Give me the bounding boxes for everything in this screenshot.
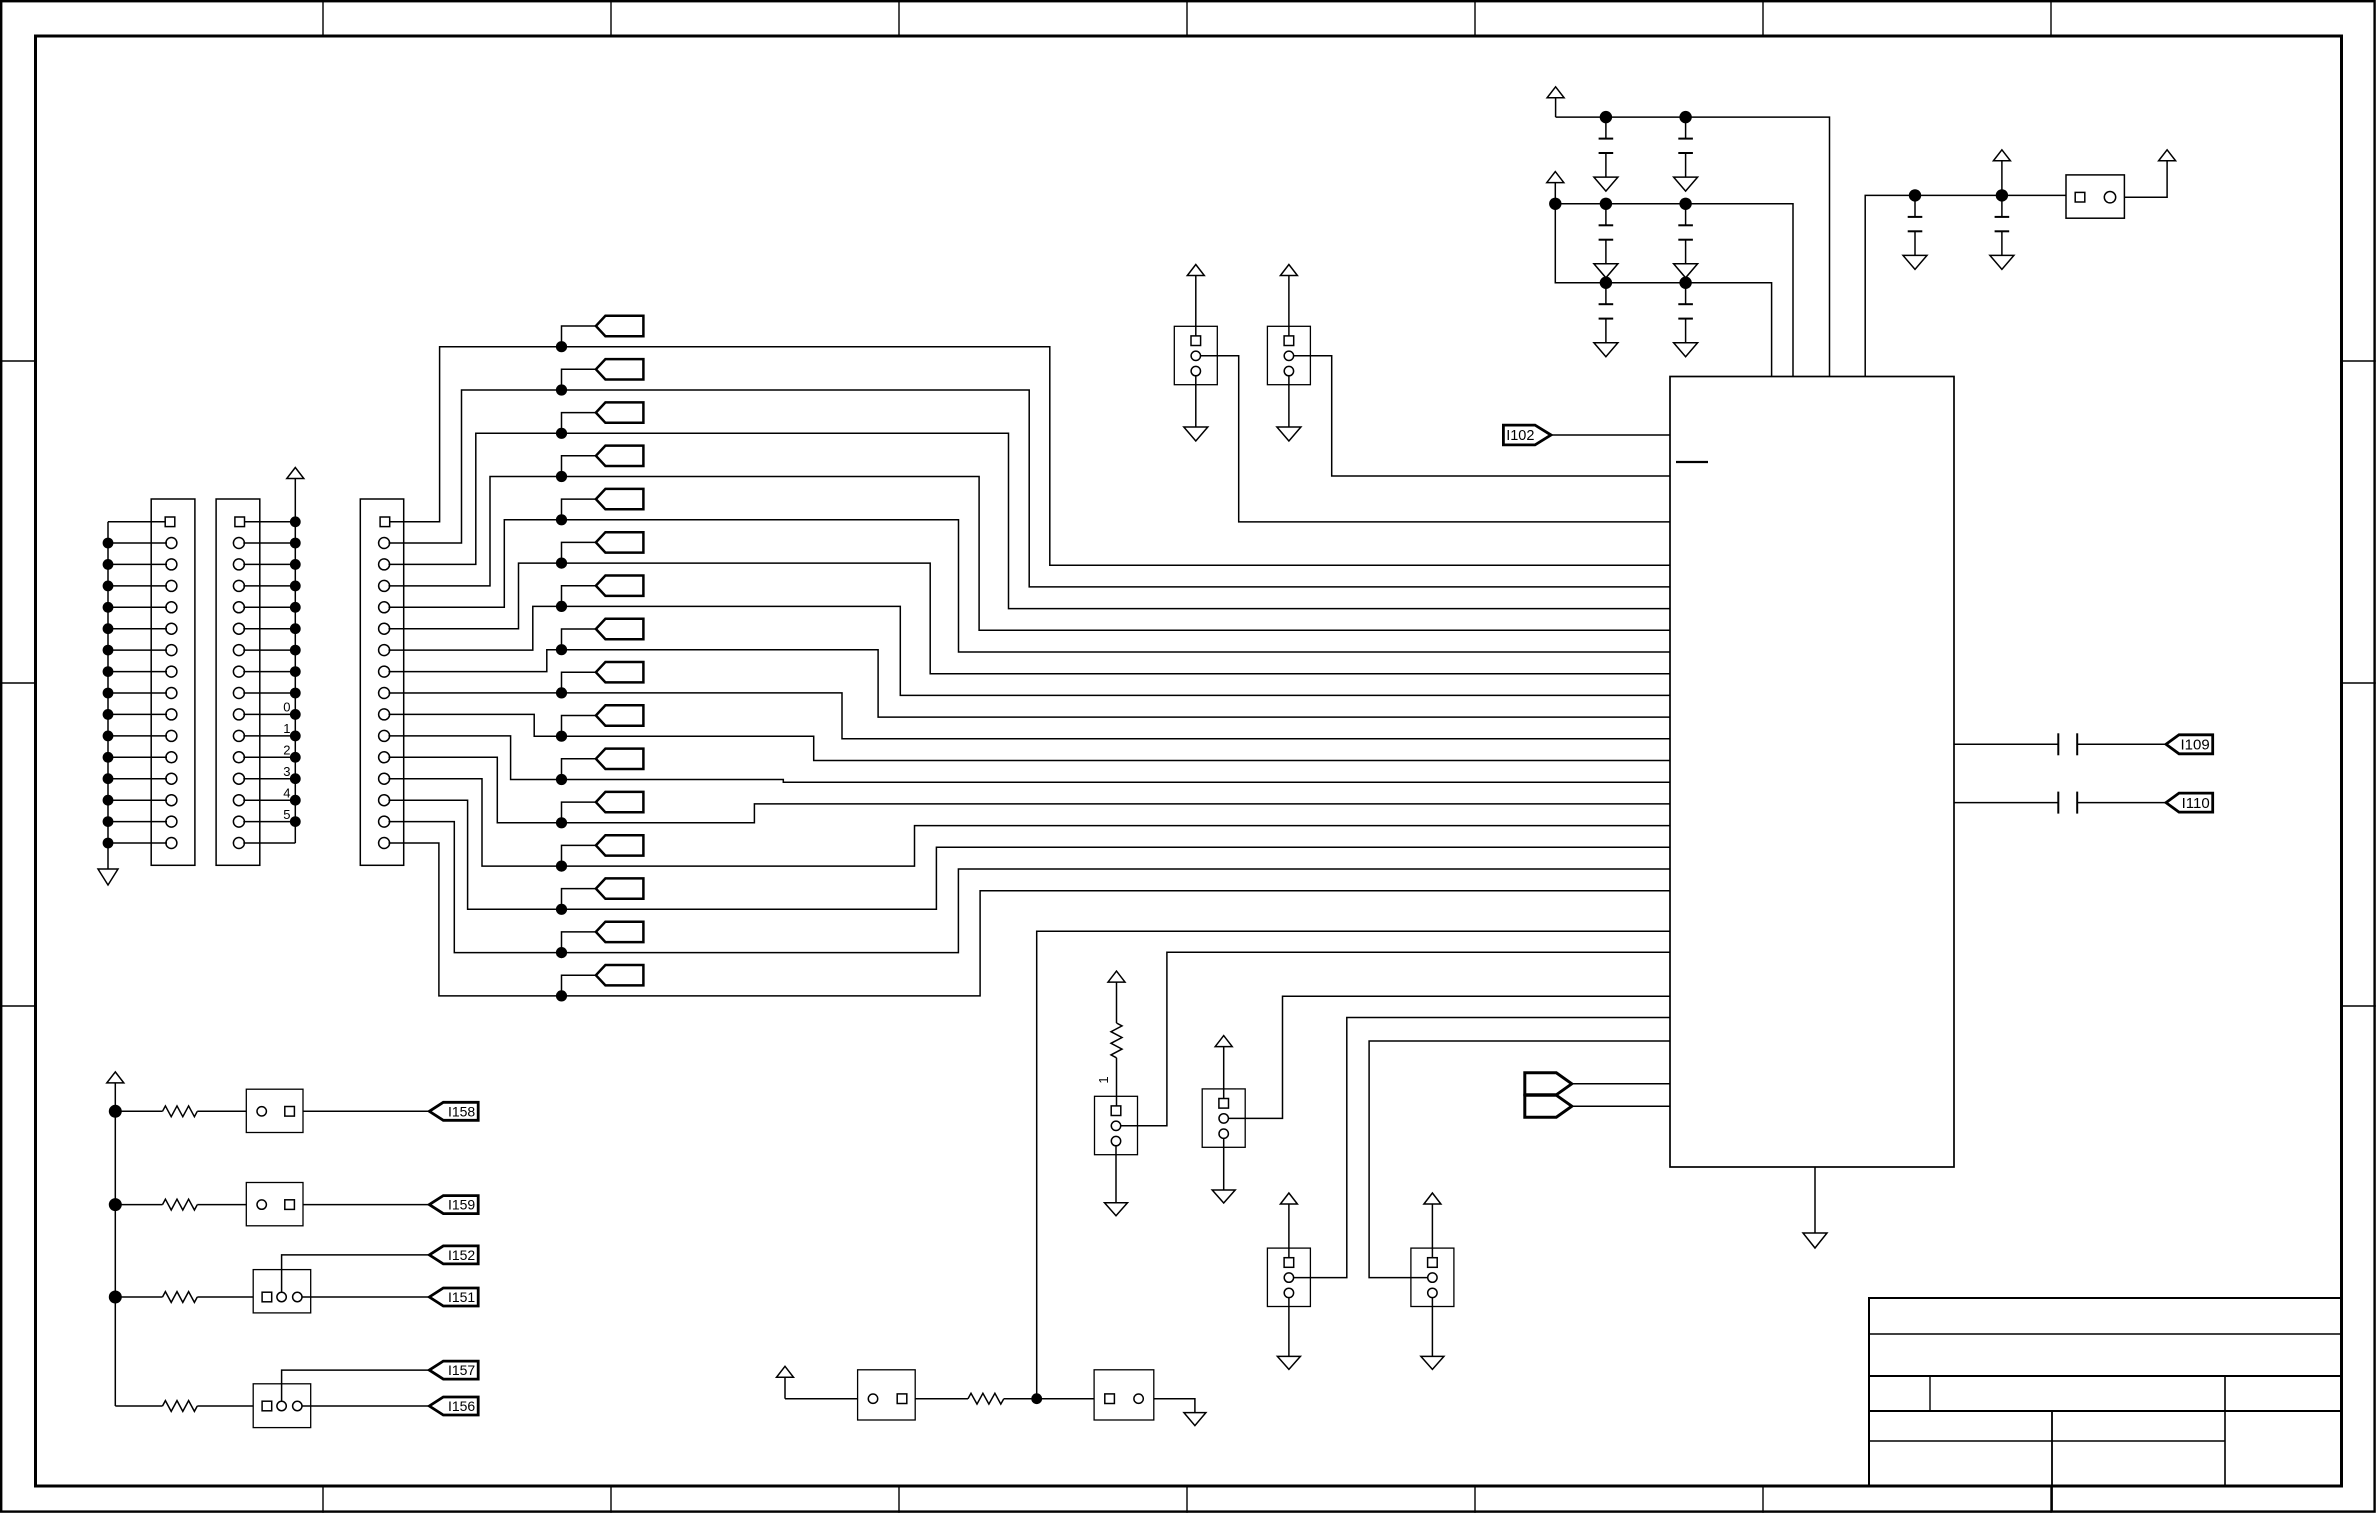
ferrite bead FB7 — [253, 1384, 311, 1428]
wire: R8 to FB5 — [197, 1204, 246, 1206]
wire: I102 to IC — [1551, 434, 1670, 436]
wire: J3 pin 8 net — [389, 672, 1671, 739]
wire: FB3 to ground — [1154, 1399, 1195, 1413]
wire: bus to R10 — [115, 1405, 162, 1407]
net flag 1 — [596, 359, 644, 379]
capacitor C8 — [1990, 195, 2014, 269]
net flag 10 — [596, 749, 644, 769]
net flag I110 — [2166, 793, 2213, 812]
wire: J3 pin 7 net — [389, 629, 1671, 717]
wire: IC to C9 — [1954, 743, 2058, 745]
ground: FB3 — [1184, 1413, 1206, 1426]
net flag I158 — [429, 1102, 478, 1120]
wire: R9 to FB6 — [197, 1296, 253, 1298]
label 1 — [1096, 1076, 1111, 1083]
wire: J3 pin 5 net — [389, 542, 1671, 673]
power symbol VCC1 — [1547, 87, 1564, 117]
junction — [109, 1105, 122, 1118]
wire: J3 pin 9 net — [389, 714, 1671, 760]
wire: FB7 to I156 — [302, 1405, 429, 1407]
net flag 11 — [596, 792, 644, 812]
capacitor C9 — [2058, 733, 2077, 755]
svg-text:I109: I109 — [2180, 737, 2209, 754]
resistor pack RN1 — [1174, 326, 1217, 384]
svg-text:I151: I151 — [448, 1289, 475, 1305]
resistor pack RN6 — [1411, 1248, 1454, 1306]
wire: J3 pin 2 net — [389, 413, 1671, 609]
net flag I159 — [429, 1196, 478, 1214]
wire: J3 pin 4 net — [389, 499, 1671, 652]
ferrite bead FB4 — [246, 1089, 303, 1132]
wire: FB1 to power — [2124, 161, 2167, 197]
wire: FB2 to R6 — [915, 1398, 968, 1400]
svg-text:1: 1 — [283, 721, 290, 736]
net flag 8 — [596, 662, 644, 682]
wire: flag B to IC — [1572, 1105, 1670, 1107]
resistor R5 — [1111, 1023, 1122, 1058]
net flag 15 — [596, 965, 644, 985]
ground: J1 — [98, 869, 118, 885]
net flag 13 — [596, 878, 644, 898]
wire: FB6 to I152 — [282, 1255, 430, 1292]
wire: FB7 to I157 — [282, 1370, 430, 1401]
wire: IC to C10 — [1954, 802, 2058, 804]
wire: J3 pin 11 net — [389, 757, 1671, 828]
wire: bus to R8 — [115, 1204, 162, 1206]
ferrite bead FB5 — [246, 1183, 303, 1226]
power symbol: RN6 — [1424, 1193, 1441, 1258]
net flag 0 — [596, 316, 644, 336]
svg-text:I110: I110 — [2182, 795, 2210, 812]
net flag 9 — [596, 705, 644, 725]
ground: RN3 — [1105, 1146, 1128, 1216]
power symbol VCC5 — [2159, 150, 2176, 161]
capacitor C6 — [1674, 283, 1698, 357]
IC U1 — [1670, 377, 1954, 1168]
wire: RN4 to IC — [1228, 996, 1670, 1118]
wire: R7 to FB4 — [197, 1110, 246, 1112]
wire: R5 to RN3 — [1116, 1058, 1118, 1106]
wire: J3 pin 14 net — [389, 822, 1671, 959]
power symbol: P7 — [107, 1072, 124, 1406]
power symbol: RN5 — [1280, 1193, 1297, 1258]
connector J1 — [151, 499, 195, 865]
wire: R10 to FB7 — [197, 1405, 253, 1407]
wire: J2 power bus — [243, 516, 300, 843]
net flag I109 — [2166, 735, 2213, 754]
wire: RN3 to IC — [1121, 952, 1670, 1126]
title block — [1869, 1298, 2342, 1511]
power symbol: R5 — [1108, 971, 1125, 1023]
net flag 12 — [596, 835, 644, 855]
wire: P6 to FB2 — [785, 1398, 858, 1400]
power symbol: P6 — [777, 1366, 794, 1398]
wire: VCC2 rail — [1549, 198, 1793, 377]
wire: bus to R7 — [115, 1110, 162, 1112]
wire: FB5 to I159 — [303, 1204, 429, 1206]
resistor pack RN3 — [1095, 1096, 1138, 1154]
power symbol: RN1 — [1187, 265, 1204, 336]
ground: RN4 — [1212, 1138, 1235, 1203]
resistor R6 — [968, 1393, 1004, 1404]
power symbol: RN2 — [1280, 265, 1297, 336]
net flag I151 — [429, 1288, 478, 1306]
wire: J3 pin 10 net — [389, 736, 1671, 785]
svg-text:I157: I157 — [448, 1362, 475, 1378]
wire: FB6 to I151 — [302, 1296, 429, 1298]
resistor R8 — [163, 1199, 198, 1210]
wire: flag A to IC — [1572, 1083, 1670, 1085]
svg-text:I152: I152 — [448, 1247, 475, 1263]
wire: J3 pin 3 net — [389, 456, 1671, 631]
svg-text:4: 4 — [283, 785, 290, 800]
ferrite bead FB3 — [1094, 1370, 1154, 1420]
wire: R6 to node — [1004, 1393, 1042, 1404]
wire: VCC2 lower rail — [1555, 204, 1771, 377]
net flag 3 — [596, 446, 644, 466]
svg-text:3: 3 — [283, 764, 290, 779]
resistor R10 — [163, 1401, 198, 1412]
svg-text:I156: I156 — [448, 1398, 475, 1414]
wire: J3 pin 0 net — [390, 326, 1670, 565]
svg-text:1: 1 — [1096, 1076, 1111, 1083]
svg-text:I158: I158 — [448, 1103, 475, 1119]
net flag B — [1525, 1095, 1572, 1117]
power symbol: J2 — [287, 468, 304, 522]
junction — [109, 1198, 122, 1211]
capacitor C2 — [1674, 117, 1698, 191]
resistor pack RN2 — [1267, 326, 1310, 384]
wire: J3 pin 15 net — [389, 843, 1671, 1002]
svg-text:0: 0 — [283, 700, 290, 715]
capacitor C10 — [2058, 792, 2077, 814]
net flag 2 — [596, 402, 644, 422]
connector J2 — [216, 499, 260, 865]
svg-text:2: 2 — [283, 743, 290, 758]
wire: J3 pin 12 net — [389, 779, 1671, 872]
wire: RN5 to IC — [1294, 1018, 1670, 1278]
net flag I157 — [429, 1361, 478, 1379]
ground: RN6 — [1421, 1298, 1444, 1370]
svg-text:I102: I102 — [1506, 428, 1534, 444]
ground: RN2 — [1277, 376, 1301, 441]
power symbol VCC2 — [1547, 172, 1564, 204]
ground: RN1 — [1184, 376, 1208, 441]
junction — [109, 1291, 122, 1304]
wire: RN2 to IC — [1294, 356, 1670, 476]
wire: VCC3 rail — [1865, 189, 2066, 376]
wire: RN1 to IC — [1201, 356, 1671, 522]
net flag 5 — [596, 532, 644, 552]
net flag 4 — [596, 489, 644, 509]
connector J3 — [360, 499, 403, 865]
power symbol VCC4 — [1993, 150, 2010, 196]
capacitor C7 — [1903, 195, 1927, 269]
ferrite bead FB2 — [858, 1370, 916, 1420]
wire: C9 to I109 — [2077, 743, 2166, 745]
wire: RN6 to IC — [1369, 1041, 1670, 1278]
net flag I152 — [429, 1246, 478, 1264]
ferrite bead FB6 — [253, 1270, 311, 1313]
resistor pack RN4 — [1202, 1089, 1245, 1147]
capacitor C3 — [1594, 204, 1618, 278]
capacitor C4 — [1674, 204, 1698, 278]
wire: C10 to I110 — [2077, 802, 2166, 804]
resistor R9 — [163, 1292, 198, 1303]
net flag 6 — [596, 576, 644, 596]
resistor R7 — [163, 1106, 198, 1117]
capacitor C5 — [1594, 283, 1618, 357]
net flag 7 — [596, 619, 644, 639]
net flag I156 — [429, 1397, 478, 1415]
wire: J3 pin 1 net — [389, 369, 1671, 587]
resistor pack RN5 — [1267, 1248, 1310, 1306]
svg-text:5: 5 — [283, 807, 290, 822]
pin numbers 0-5 — [283, 700, 290, 822]
power symbol: RN4 — [1215, 1036, 1232, 1099]
wire: node riser to IC — [1037, 931, 1670, 1398]
wire: bus to R9 — [115, 1296, 162, 1298]
wire: node to FB3 — [1037, 1398, 1094, 1400]
capacitor C1 — [1594, 117, 1618, 191]
net flag A — [1525, 1073, 1572, 1095]
ground: RN5 — [1277, 1298, 1300, 1370]
net flag 14 — [596, 922, 644, 942]
ground: IC — [1803, 1167, 1827, 1248]
svg-text:I159: I159 — [448, 1197, 475, 1213]
net flag I102 — [1503, 425, 1551, 445]
wire: J3 pin 6 net — [389, 586, 1671, 696]
wire: VCC1 rail — [1556, 111, 1830, 377]
wire: FB4 to I158 — [303, 1110, 429, 1112]
ferrite bead FB1 — [2066, 175, 2124, 218]
wire: J1 ground bus — [103, 522, 167, 869]
wire: J3 pin 13 net — [389, 800, 1671, 915]
